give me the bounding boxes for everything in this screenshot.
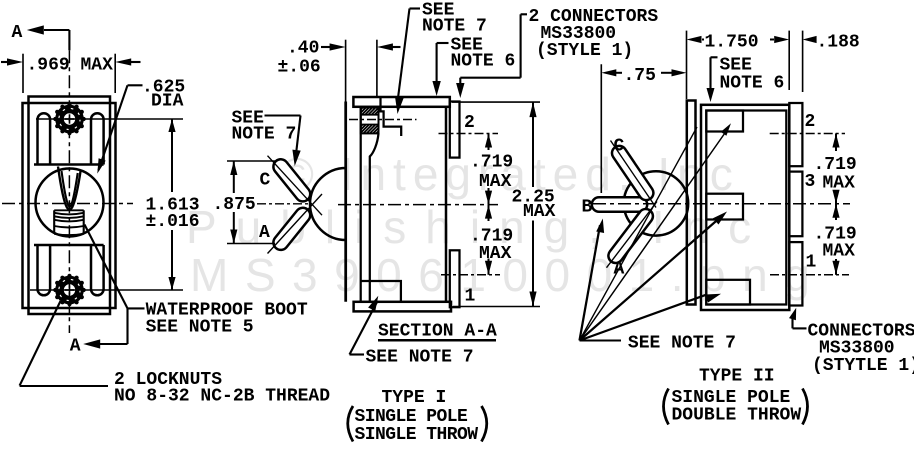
terminal blade 1 (right) [789,242,802,305]
svg-text:MAX: MAX [823,174,856,194]
toggle lever position C (section) [273,159,310,201]
locknuts leader [20,301,61,386]
svg-text:SECTION A-A: SECTION A-A [378,322,497,342]
svg-text:MAX: MAX [523,202,556,222]
svg-text:.719: .719 [470,152,513,172]
waterproof boot leader [128,307,145,309]
dimension .75 arrows [601,69,616,76]
big paren right (type I) [482,406,487,442]
svg-text:TYPE II: TYPE II [699,367,775,387]
left view: locknut extension line top [36,118,183,120]
2 connectors leader [521,13,527,15]
terminal blade 3 (right) [789,172,802,237]
lever A centerline (right) [607,202,658,268]
section: bushing hatch top [361,108,363,110]
svg-text:DIA: DIA [151,92,184,112]
dimension 1.750 extension lines [686,31,688,99]
dimension .875 arrows [233,161,235,193]
dimension .40 extension lines [345,40,347,108]
svg-text:(STYLE 1): (STYLE 1) [536,41,633,61]
section: terminal 1 center tick [441,274,500,276]
dimension .875 ticks [227,160,275,162]
left view: top-right slot [91,113,104,164]
svg-text:.719: .719 [814,155,857,175]
svg-text:SEE NOTE 7: SEE NOTE 7 [366,348,474,368]
section: bottom bar [354,302,451,312]
see note 7 bottom leader [350,353,365,355]
fan leader through pivot [580,127,698,341]
svg-text:.40: .40 [287,39,319,59]
svg-text:SINGLE THROW: SINGLE THROW [355,425,479,445]
svg-text:MAX: MAX [479,244,512,264]
section: panel face line [344,102,347,302]
lever C centerline (section) [268,156,323,216]
lever C centerline (right) [611,141,657,208]
see note 6 leader (section) [437,42,449,44]
see note 7 left leader [265,114,301,116]
section: top flange [353,97,449,107]
svg-text:NOTE 7: NOTE 7 [422,17,487,37]
terminal blade 2 (section) [450,102,460,158]
section: body right edge [445,107,448,302]
svg-text:.188: .188 [817,33,860,53]
svg-text:MAX: MAX [479,172,512,192]
svg-text:B: B [582,198,593,218]
svg-text:±.016: ±.016 [146,212,200,232]
svg-text:A: A [259,223,270,243]
dimension .719 lower (section) [488,205,490,221]
fan leader to top contact box [580,132,727,341]
left view: locknut extension line bottom [30,289,183,291]
left view: top bar [34,163,104,166]
svg-text:A: A [70,337,81,357]
right view: terminal 2 tick [770,133,845,135]
svg-text:TYPE I: TYPE I [382,388,447,408]
dimension .40 arrows [321,46,331,48]
svg-text:1: 1 [465,287,476,307]
toggle lever position C (right) [612,146,653,200]
right view: horizontal centerline [593,203,850,205]
left view: vertical centerline A-A [68,50,70,333]
svg-text:2: 2 [464,113,475,133]
dimension .969 MAX extension lines [22,54,24,93]
left view: boot circle .625 DIA [36,169,104,237]
see note 6 leader (right) [711,56,718,58]
left view: boot dome outline [58,167,81,210]
left view: bottom-left slot [38,245,51,295]
pivot centerline dash [257,203,309,205]
svg-text:C: C [614,137,625,157]
right view: middle contact box [706,194,743,220]
right view: body inner rectangle [706,111,786,305]
svg-text:SEE: SEE [720,56,753,76]
dimension 1.750 arrows [687,36,702,43]
dimension .188 arrow [803,36,817,43]
svg-text:SEE NOTE 7: SEE NOTE 7 [628,334,736,354]
fan leader to lever B [580,225,601,340]
big paren left (type I) [348,406,353,442]
locknut top [55,105,84,134]
section: step under flange [381,98,402,137]
section: terminal 2 center tick [439,133,499,135]
svg-text:.75: .75 [624,66,656,86]
toggle lever position B (right) [592,197,647,211]
fan leader to bottom contact box [580,294,708,340]
see note 7 top leader [410,7,421,9]
lever A centerline (section) [268,194,323,254]
terminal blade 2 (right) [789,103,802,166]
left view: bottom-right slot [91,245,104,295]
fan leader to middle contact box [580,221,717,340]
left view: top-left slot [38,113,51,164]
svg-text:3: 3 [805,172,816,192]
dimension .719 upper (right) [835,134,837,152]
dimension 2.25 line [532,102,534,187]
dimension .625 leader [128,84,143,86]
left view: switch body outer rectangle [23,103,116,308]
section: boot clamp curve [370,133,379,301]
big paren right (type II) [803,389,808,425]
locknut bottom [55,276,84,305]
svg-text:±.06: ±.06 [278,58,321,78]
svg-text:DOUBLE THROW: DOUBLE THROW [672,406,802,426]
right view: top contact box [706,111,743,132]
fan horizontal to SEE NOTE 7 [580,339,622,341]
right view: boot dome circle [624,171,688,235]
right view: bottom contact box [706,280,750,305]
dimension 2.25 extension lines [452,101,540,103]
right view: mounting plate [687,101,696,305]
section: horizontal centerline [338,204,498,206]
svg-text:1: 1 [806,253,817,273]
terminal blade 1 (section) [450,250,460,307]
svg-text:A: A [12,23,23,43]
svg-text:MAX: MAX [823,242,856,262]
svg-text:C: C [260,171,271,191]
dimension .719 lower (right) [835,204,837,220]
svg-text:(STYTLE 1): (STYTLE 1) [812,356,914,376]
left view: boot cylinder and ribs [53,210,55,234]
right view: body outer rectangle [701,105,789,310]
section: boot dome arc [310,168,346,240]
section: bottom step box [361,281,401,302]
left view: switch body inner rectangle [29,97,111,315]
svg-text:1.750: 1.750 [705,33,759,53]
dimension .75 extension line [600,64,602,193]
svg-text:.969 MAX: .969 MAX [27,56,114,76]
section: bushing centerline [349,119,417,121]
toggle lever position A (section) [273,208,310,250]
dimension 1.613 line+arrows [171,119,173,192]
svg-text:NOTE 7: NOTE 7 [232,125,297,145]
section: bushing hatch bottom [361,125,363,127]
svg-text:.875: .875 [213,195,256,215]
svg-text:NO 8-32 NC-2B THREAD: NO 8-32 NC-2B THREAD [114,387,330,407]
dimension .719 upper (section) [488,134,490,151]
svg-text:SEE NOTE 5: SEE NOTE 5 [146,318,254,338]
svg-text:NOTE 6: NOTE 6 [720,74,785,94]
section: bushing block outline [361,108,379,134]
connectors leader (right) [793,327,807,329]
big paren left (type II) [664,389,669,425]
right view: terminal 1 tick [770,274,849,276]
left view: bottom bar [34,244,104,247]
dimension .969 MAX arrows [1,61,9,63]
left view: horizontal centerline [2,203,133,205]
toggle lever position A (right) [608,209,652,263]
svg-text:NOTE 6: NOTE 6 [451,52,516,72]
dimension .188 extension line [802,31,804,92]
section: left wall [360,107,362,302]
svg-text:2: 2 [805,112,816,132]
